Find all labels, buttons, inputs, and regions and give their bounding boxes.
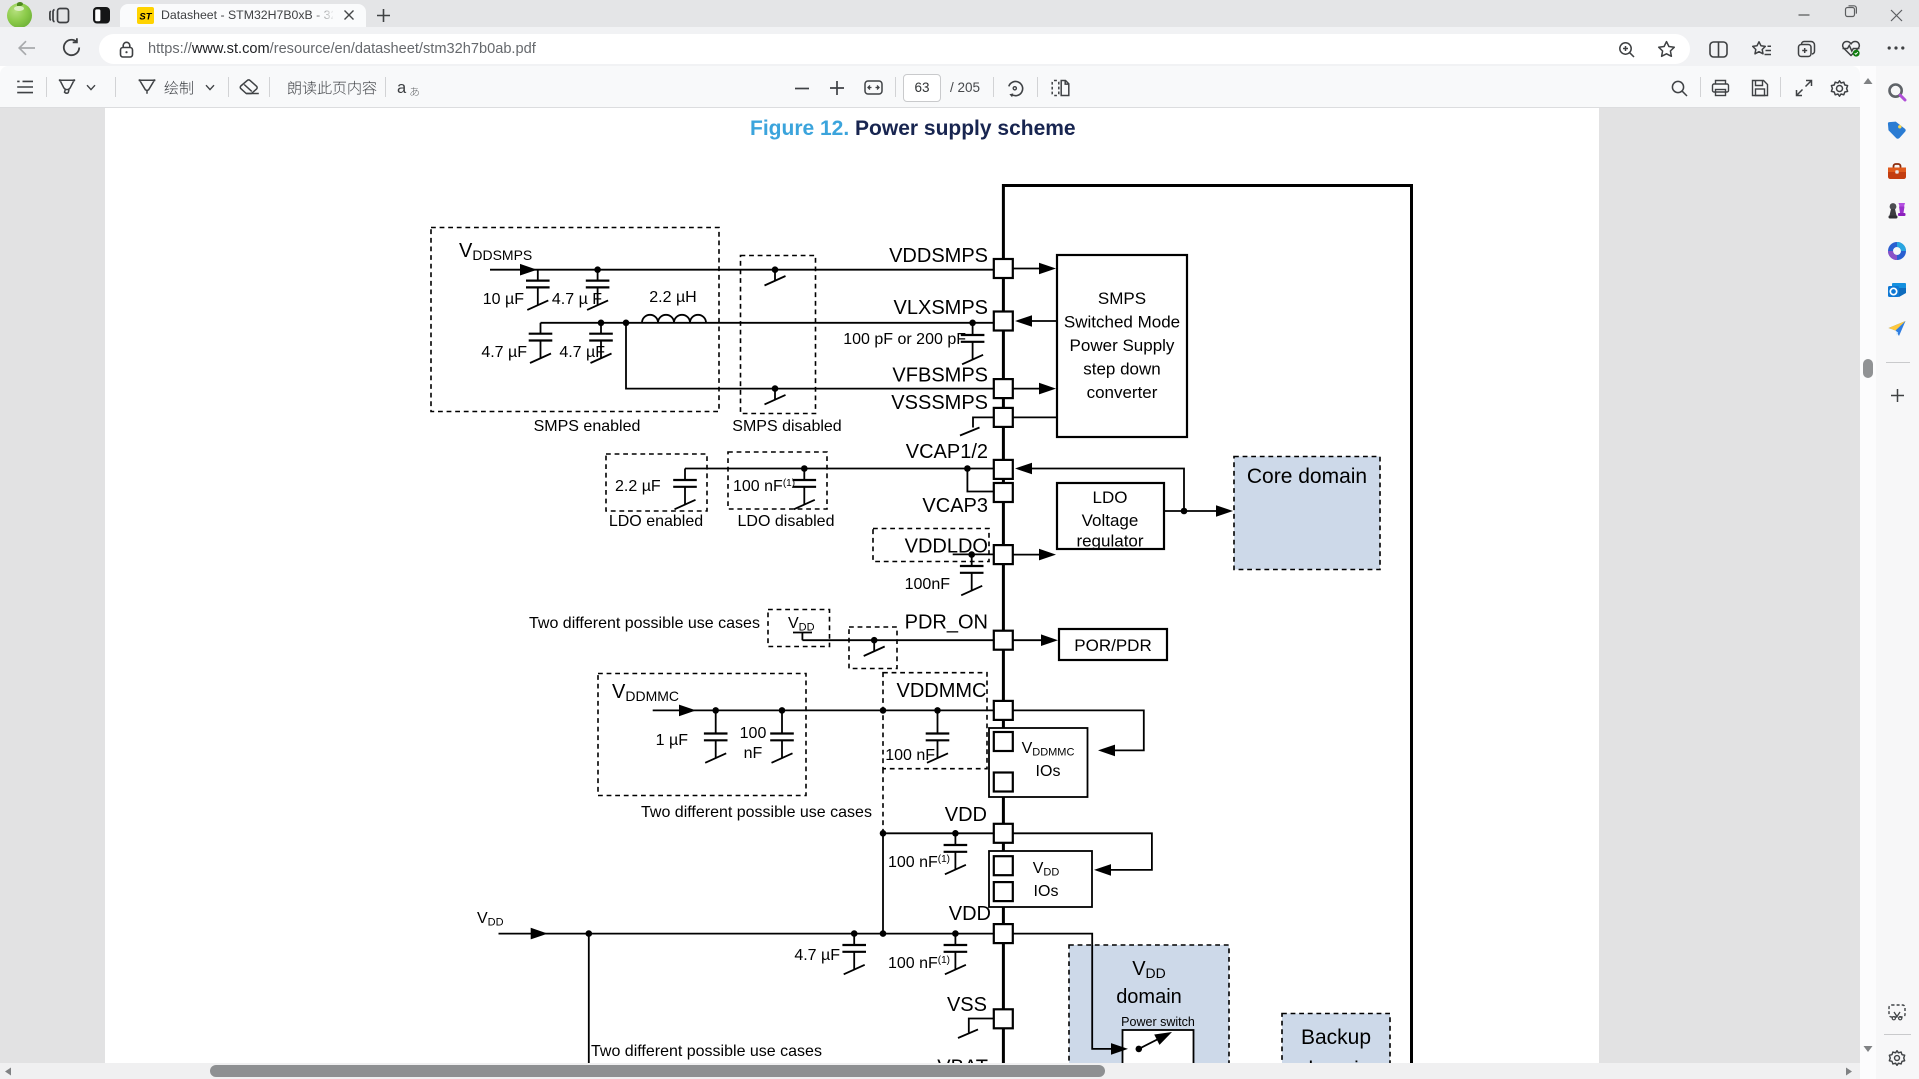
node VDD-C13 [851,930,858,937]
svg-text:100 nF(1): 100 nF(1) [888,955,950,972]
wire LDO box to node [1164,510,1222,512]
wire VDD to power switch [1013,934,1112,1049]
ground below C6 [675,487,696,510]
svg-text:VDDMMC: VDDMMC [612,681,679,704]
svg-text:LDO enabled: LDO enabled [609,513,703,530]
wire pin to SMPS box [1013,416,1057,418]
svg-text:100 nF(1): 100 nF(1) [733,478,795,495]
ground at VSSSMPS [973,417,994,427]
dashed box LDO disabled [728,452,827,509]
zoom in page icon [1618,41,1636,59]
arrow into Core domain [1216,505,1233,517]
svg-text:POR/PDR: POR/PDR [1074,636,1151,655]
capacitor C6 2.2uF [684,469,686,481]
capacitor C4 4.7uF [600,323,602,334]
svg-text:Core domain: Core domain [1247,465,1367,488]
favorites star list [1752,40,1772,58]
svg-text:VDDMMC: VDDMMC [897,680,987,702]
new tab + [376,8,391,23]
pin VSS [994,1009,1013,1028]
svg-text:2.2 µF: 2.2 µF [615,478,661,495]
svg-text:1 µF: 1 µF [656,732,689,749]
arrow VDD input [531,928,548,940]
svg-text:VDD: VDD [477,910,504,929]
node VDD-C14 [952,930,959,937]
print icon [1711,79,1730,97]
ground at VSS [969,1019,994,1033]
dashed box LDO enabled [606,454,707,511]
svg-text:ST: ST [139,12,152,23]
arrow into SMPS converter [1039,383,1056,395]
node VDD-down [586,930,593,937]
pin VDDMMC [994,701,1013,720]
wire VLXSMPS rail [541,322,995,324]
node VLX-L1 [623,320,630,327]
pin VDDMMC IO lower [994,773,1013,792]
collections [1797,40,1816,58]
wire tie to bottom rail [882,833,884,933]
wire VDD rail 1 [883,832,994,834]
tab activity icon [49,5,72,26]
svg-text:IOs: IOs [1036,763,1061,780]
node PDR switch [871,637,878,644]
capacitor C1 10uF [537,270,539,281]
node VLX-C4 [598,320,605,327]
ground below C10 [772,740,793,763]
ground below C5 [962,342,983,365]
dashed link to VDD rail [882,769,884,834]
pin VDD IO upper [994,856,1013,875]
wire VCAP rail [685,468,994,470]
sidebar shopping [1887,120,1907,140]
fit width icon [864,80,883,95]
node VDDMMC-C11 [934,707,941,714]
sidebar games [1886,200,1908,221]
dashed box SMPS enabled [431,228,719,412]
svg-text:100: 100 [740,725,767,742]
ground below C2 [587,287,608,310]
svg-text:VDDSMPS: VDDSMPS [459,240,532,263]
browser essentials [1841,40,1861,58]
capacitor C9 1uF [715,710,717,733]
ground below C8 [961,573,982,596]
wire down from VDD rail [588,934,590,1063]
block VDDMMC IOs [989,728,1088,797]
svg-text:100 nF: 100 nF [885,747,935,764]
zoom in plus [830,81,844,95]
svg-text:VDD: VDD [949,903,991,925]
ground below C3 [530,341,551,364]
block U2 LDO voltage regulator [1057,483,1164,549]
dashed box VDDMMC use cases [598,674,806,796]
wire VDD bottom rail [499,933,995,935]
wire SMPS box to pin [1031,320,1057,322]
zoom out minus [795,87,809,90]
capacitor C5 100pF/200pF [972,323,974,335]
svg-text:IOs: IOs [1034,883,1059,900]
svg-text:Backup: Backup [1301,1026,1371,1049]
rotate icon [1006,79,1025,98]
capacitor C8 100nF [971,555,973,566]
url text [148,41,536,57]
settings gear [1830,79,1849,98]
page number box [903,74,941,102]
refresh [61,37,82,58]
wire LDO output to VCAP pin [1031,469,1184,512]
svg-text:Power switch: Power switch [1121,1015,1195,1029]
svg-text:4.7 µF: 4.7 µF [481,344,527,361]
sidebar screenshot [1888,1004,1906,1021]
wire VDDSMPS rail [490,269,994,271]
sidebar m365 [1887,241,1907,261]
pin VDD [994,824,1013,843]
svg-text:VDDSMPS: VDDSMPS [889,245,988,267]
capacitor C7 100nF [803,469,805,481]
svg-text:SMPS disabled: SMPS disabled [732,418,841,435]
node VDDLDO-C8 [968,551,975,558]
tab close [343,9,355,21]
profile avatar green apple [7,3,32,28]
svg-text:nF: nF [744,745,763,762]
ground below C14 [945,952,966,975]
draw pen icon [137,78,157,98]
switch disconnect VFBSMPS [765,390,786,405]
wire branch to VCAP3 [967,469,994,492]
sidebar outlook [1887,281,1907,301]
sidebar drop [1887,319,1907,339]
block Core domain [1234,457,1380,570]
url pill [99,34,1690,64]
svg-text:Switched Mode: Switched Mode [1064,313,1180,332]
capacitor C13 4.7uF [853,934,855,945]
capacitor C11 100nF [937,710,939,733]
sidebar divider 2 [1884,1034,1911,1035]
sidebar settings [1888,1049,1906,1067]
svg-text:VDD: VDD [945,804,987,826]
svg-text:VFBSMPS: VFBSMPS [892,365,988,387]
arrow VDDSMPS input [520,264,537,276]
node power switch input [1136,1046,1143,1053]
arrow VDDMMC input [679,705,696,717]
wire VDDMMC to IOs [1013,710,1144,750]
meatball menu [1887,45,1905,51]
node VFB disable switch [772,385,779,392]
wire pin to SMPS box [1013,268,1045,270]
sidebar divider [1886,362,1910,363]
capacitor C12 100nF [954,833,956,845]
svg-text:100 nF(1): 100 nF(1) [888,854,950,871]
pin VDD 2 [994,924,1013,943]
dashed box SMPS disabled [741,256,816,414]
node VDDSMPS-C1 [594,266,601,273]
page view icon [1051,79,1070,97]
arrow into power switch [1111,1043,1128,1055]
svg-text:100nF: 100nF [905,576,951,593]
svg-text:10 µF: 10 µF [483,291,524,308]
svg-text:VCAP1/2: VCAP1/2 [906,441,988,463]
save icon [1751,79,1769,97]
expand icon [1795,79,1813,97]
ground below C9 [705,740,726,763]
svg-text:4.7 µF: 4.7 µF [559,344,605,361]
arrow into POR/PDR [1041,634,1058,646]
sidebar search [1887,82,1907,102]
svg-text:Voltage: Voltage [1082,511,1139,530]
window controls [1797,9,1811,21]
node VDDMMC tie [880,707,887,714]
sidebar toolbox [1887,162,1907,182]
MCU outline top edge [1002,184,1413,187]
wire VDD to IOs [1013,833,1152,870]
node VDDMMC-C9 [712,707,719,714]
node VDD-tie2 [880,930,887,937]
svg-text:VSS: VSS [947,994,987,1016]
node VDD-C12 [952,830,959,837]
switch disconnect VDDSMPS [765,271,786,286]
node VDDSMPS disable switch [772,266,779,273]
svg-text:VCAP3: VCAP3 [922,495,988,517]
block VDD domain [1069,945,1229,1075]
ground below C13 [844,952,865,975]
block VDD IOs [989,851,1092,907]
node LDO output [1181,508,1188,515]
arrow into LDO regulator [1039,549,1056,561]
capacitor C3 4.7uF [540,323,542,334]
arrow out of SMPS converter [1015,315,1032,327]
wire VDDLDO stub [953,553,994,555]
绘制 [163,80,197,97]
dashed box VDDLDO [873,529,989,562]
capacitor C10 100nF [781,710,783,733]
wire pin to POR/PDR [1013,639,1047,641]
switch arm [1139,1034,1168,1049]
朗读此页内容 [287,80,379,97]
dashed box VDDMMC near pin [883,673,987,769]
svg-text:4.7 µ F: 4.7 µ F [552,291,602,308]
block U1 SMPS converter [1057,255,1187,437]
ground below C4 [591,341,612,364]
svg-text:4.7 µF: 4.7 µF [794,947,840,964]
inductor L1 2.2uH [642,315,706,323]
block power switch [1123,1030,1194,1075]
block Backup domain [1282,1014,1390,1079]
arrow into VCAP1/2 pin [1015,463,1032,475]
ground below C12 [945,852,966,875]
vertical tabs icon [92,6,112,25]
svg-text:100 pF or 200 pF: 100 pF or 200 pF [843,331,966,348]
svg-text:Two different possible use cas: Two different possible use cases [641,804,872,821]
arrow into SMPS converter [1039,263,1056,275]
wire PDR_ON [802,639,994,641]
svg-text:VLXSMPS: VLXSMPS [894,297,988,319]
highlighter icon [57,78,77,98]
a-hiragana translate icon [397,79,406,98]
svg-text:SMPS: SMPS [1098,289,1146,308]
dashed box VDD option [768,610,830,647]
lock icon [119,41,134,58]
right side icons [1671,80,1688,97]
wire feedback to VFBSMPS [626,323,994,389]
active tab [120,4,366,28]
svg-text:domain: domain [1116,986,1182,1008]
wire VDDMMC rail [653,709,994,711]
arrow into VDDMMC IOs [1098,745,1115,757]
svg-text:Two different possible use cas: Two different possible use cases [591,1043,822,1060]
ground below C1 [527,287,548,310]
svg-text:LDO: LDO [1093,488,1128,507]
dashed box PDR switch option [849,627,897,669]
block U3 POR/PDR [1059,629,1167,660]
figure caption [750,117,1076,141]
svg-text:step down: step down [1083,360,1161,379]
svg-text:VSSSMPS: VSSSMPS [891,392,988,414]
favorite star [1657,40,1676,58]
ST favicon [137,7,154,24]
toc icon [16,79,34,95]
wire VDDLDO pin to LDO box [1013,554,1045,556]
arrow into VDD IOs [1094,864,1111,876]
split screen icon [1709,41,1728,58]
svg-text:VDD: VDD [788,615,815,634]
svg-text:SMPS enabled: SMPS enabled [534,418,641,435]
node VDDMMC-C10 [779,707,786,714]
node VCAP-C7 [801,465,808,472]
MCU outline left edge [1002,184,1005,1063]
node VDD tie [880,830,887,837]
MCU outline right edge [1410,184,1413,1063]
svg-text:Power Supply: Power Supply [1070,336,1175,355]
capacitor C2 4.7uF [597,270,599,281]
node VLX-C5 [969,320,976,327]
svg-text:regulator: regulator [1076,532,1143,551]
back arrow (disabled) [17,38,37,58]
ground below C11 [927,740,948,763]
svg-text:Two different possible use cas: Two different possible use cases [529,615,760,632]
sidebar plus [1890,388,1905,403]
node VCAP branch [964,465,971,472]
pin VDDMMC IO upper [994,732,1013,751]
switch PDR_ON pull-down [864,642,885,657]
svg-text:PDR_ON: PDR_ON [905,612,988,634]
wire pin to SMPS box [1013,388,1045,390]
svg-text:2.2 µH: 2.2 µH [649,289,696,306]
capacitor C14 100nF [954,934,956,945]
svg-text:converter: converter [1087,383,1158,402]
pin VDD IO lower [994,882,1013,901]
ground below C7 [794,487,815,510]
eraser icon [239,79,260,97]
svg-text:LDO disabled: LDO disabled [738,513,835,530]
